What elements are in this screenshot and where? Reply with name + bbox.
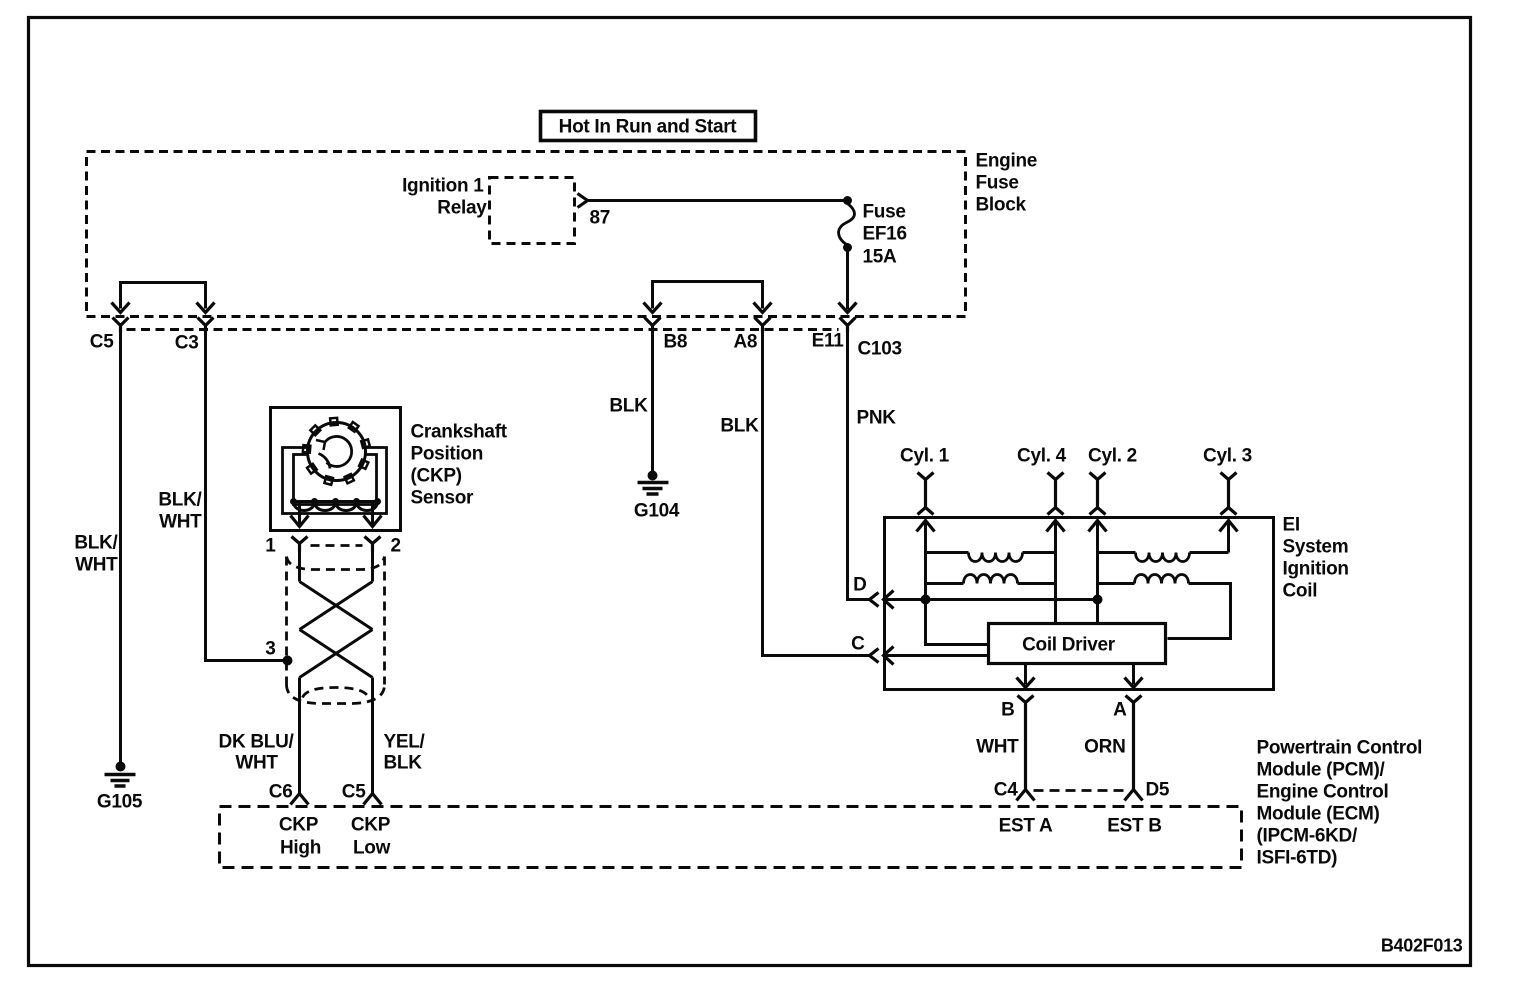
svg-text:Cyl. 4: Cyl. 4: [1017, 446, 1067, 467]
svg-text:BLK/: BLK/: [74, 533, 118, 554]
svg-text:WHT: WHT: [75, 555, 118, 576]
svg-text:WHT: WHT: [235, 753, 278, 774]
junction dot right: [1093, 595, 1103, 605]
bridge wire B8-A8: [653, 282, 763, 309]
junction dot at fuse bottom: [843, 243, 852, 252]
svg-text:Coil: Coil: [1283, 581, 1318, 602]
wire into coil box at x=925: [924, 521, 927, 600]
svg-text:EI: EI: [1283, 515, 1300, 536]
svg-text:Low: Low: [353, 838, 391, 859]
CKP coil: [291, 500, 379, 503]
pin 87 of relay: [578, 194, 588, 208]
output wire B: [1024, 664, 1027, 685]
spark plug connector at x=925: [918, 473, 934, 515]
ground G105: [116, 762, 126, 772]
svg-text:DK BLU/: DK BLU/: [219, 732, 295, 753]
wire D into box: [884, 598, 1098, 601]
connector B (female): [1018, 696, 1034, 790]
svg-text:Ignition 1: Ignition 1: [402, 176, 484, 197]
wire C3 BLK/WHT to shield pin 3: [206, 333, 287, 661]
svg-text:EST A: EST A: [999, 816, 1053, 837]
connector A8 (female): [755, 318, 771, 333]
engine fuse block box (dashed): [87, 152, 966, 317]
wire into coil box at x=1097: [1096, 521, 1099, 624]
twisted pair shield (dashed cylinder): [311, 544, 363, 547]
svg-text:Cyl. 1: Cyl. 1: [900, 446, 950, 467]
connector A (female): [1126, 696, 1142, 790]
svg-text:Module (ECM): Module (ECM): [1257, 804, 1380, 825]
svg-text:G105: G105: [97, 792, 143, 813]
svg-text:Block: Block: [976, 195, 1027, 216]
ground G104: [648, 471, 658, 481]
svg-text:CKP: CKP: [279, 815, 319, 836]
svg-text:YEL/: YEL/: [384, 732, 426, 753]
CKP sensor box: [271, 408, 401, 531]
svg-text:BLK: BLK: [384, 753, 423, 774]
wire PNK E11 to D: [848, 333, 870, 600]
title box Hot In Run and Start: [541, 112, 756, 141]
connector C103 dashed line: [127, 328, 839, 331]
svg-text:WHT: WHT: [159, 512, 202, 533]
wire C5 BLK/WHT to G105: [119, 333, 122, 765]
dashed connector line C4-D5: [1034, 789, 1126, 792]
svg-text:CKP: CKP: [351, 815, 391, 836]
svg-text:A: A: [1113, 700, 1127, 721]
connector C3 (female): [198, 318, 214, 333]
pin D5 (male): [1125, 790, 1143, 801]
svg-text:Crankshaft: Crankshaft: [411, 422, 508, 443]
svg-text:WHT: WHT: [976, 737, 1019, 758]
svg-text:Coil Driver: Coil Driver: [1022, 635, 1116, 656]
svg-text:C: C: [851, 634, 865, 655]
svg-text:Relay: Relay: [437, 198, 487, 219]
spark plug connector at x=1097: [1090, 473, 1106, 515]
svg-text:Ignition: Ignition: [1283, 559, 1349, 580]
svg-text:B402F013: B402F013: [1381, 936, 1463, 956]
svg-text:Position: Position: [411, 444, 484, 465]
bridge wire C5-C3: [121, 283, 206, 309]
spark plug connector at x=1055: [1048, 473, 1064, 515]
wire into coil box at x=1055: [1054, 521, 1057, 624]
arrow into C5: [112, 303, 130, 313]
svg-text:System: System: [1283, 537, 1349, 558]
connector C5 (female): [113, 318, 129, 333]
svg-text:Fuse: Fuse: [863, 202, 906, 223]
rotation arrow inside wheel: [325, 436, 352, 466]
svg-text:15A: 15A: [863, 247, 898, 268]
svg-text:EF16: EF16: [863, 224, 907, 245]
svg-text:Hot In Run and Start: Hot In Run and Start: [559, 117, 738, 138]
svg-text:PNK: PNK: [857, 408, 897, 429]
pin C5 pcm (male): [364, 794, 382, 805]
svg-text:C103: C103: [858, 339, 902, 360]
PCM box (dashed): [220, 807, 1242, 868]
svg-text:G104: G104: [634, 501, 680, 522]
svg-text:1: 1: [265, 536, 276, 557]
svg-text:3: 3: [265, 639, 275, 660]
arrow into B8: [644, 303, 662, 313]
svg-text:EST B: EST B: [1107, 816, 1161, 837]
svg-text:ORN: ORN: [1084, 737, 1125, 758]
fuse EF16 15A: [839, 204, 855, 245]
svg-text:C3: C3: [175, 333, 199, 354]
arrow into C3: [197, 303, 215, 313]
svg-text:2: 2: [391, 536, 401, 557]
relay box Ignition 1 Relay (dashed): [490, 178, 575, 244]
pin C4 (male): [1017, 790, 1035, 801]
svg-text:(CKP): (CKP): [411, 466, 462, 487]
svg-text:B8: B8: [664, 332, 688, 353]
arrow into connector E11: [839, 303, 857, 313]
svg-text:High: High: [280, 838, 321, 859]
svg-text:Cyl. 3: Cyl. 3: [1203, 446, 1252, 467]
primary winding left: [926, 582, 964, 585]
output wire A: [1132, 664, 1135, 685]
svg-text:A8: A8: [734, 332, 758, 353]
svg-text:87: 87: [590, 208, 611, 229]
EI coil box: [885, 518, 1274, 690]
CKP pickup outer rect: [283, 448, 387, 514]
svg-text:Sensor: Sensor: [411, 488, 475, 509]
secondary winding cyl 1-4: [926, 551, 969, 554]
pin C6 (male): [291, 794, 309, 805]
pin 1 (female): [292, 537, 308, 552]
CKP output wires with arrows: [300, 502, 373, 525]
wire B8 BLK to G104: [651, 333, 654, 474]
svg-text:Engine: Engine: [976, 151, 1038, 172]
svg-text:(IPCM-6KD/: (IPCM-6KD/: [1257, 826, 1358, 847]
svg-text:BLK: BLK: [609, 396, 648, 417]
junction dot at fuse top: [843, 196, 852, 205]
connector C (female): [870, 649, 879, 663]
wire dot to coil driver: [926, 600, 989, 645]
svg-text:D5: D5: [1146, 780, 1170, 801]
connector E11 (female): [840, 318, 856, 333]
svg-text:BLK/: BLK/: [158, 490, 202, 511]
wire A8 BLK to C: [763, 333, 870, 656]
svg-text:C4: C4: [994, 780, 1018, 801]
svg-text:C5: C5: [90, 332, 114, 353]
svg-text:B: B: [1001, 700, 1014, 721]
spark plug connector at x=1228: [1221, 473, 1237, 515]
secondary winding cyl 2-3: [1098, 551, 1136, 554]
svg-text:Engine Control: Engine Control: [1257, 782, 1389, 803]
junction dot pin 3: [283, 656, 293, 666]
coil driver box: [989, 624, 1166, 664]
svg-text:E11: E11: [812, 331, 845, 352]
wire C into coil driver: [884, 654, 989, 657]
svg-text:Fuse: Fuse: [976, 173, 1019, 194]
svg-text:C6: C6: [269, 782, 293, 803]
wire 87 to fuse: [588, 199, 847, 202]
wire fuse to E11: [846, 248, 849, 310]
CKP pickup inner rect: [294, 455, 377, 505]
svg-text:C5: C5: [342, 782, 366, 803]
arrow into A8: [754, 303, 772, 313]
svg-text:Cyl. 2: Cyl. 2: [1088, 446, 1137, 467]
svg-text:Module (PCM)/: Module (PCM)/: [1257, 760, 1386, 781]
connector B8 (female): [645, 318, 661, 333]
connector D (female): [870, 593, 879, 607]
wire into coil box at x=1228: [1227, 521, 1230, 553]
twisted pair wires: [300, 552, 373, 582]
svg-text:ISFI-6TD): ISFI-6TD): [1257, 848, 1338, 869]
svg-text:Powertrain Control: Powertrain Control: [1257, 738, 1423, 759]
pin 2 (female): [365, 537, 381, 552]
primary winding right: [1098, 582, 1135, 585]
junction dot left: [921, 595, 931, 605]
CKP reluctor wheel: [308, 423, 366, 481]
svg-text:D: D: [853, 575, 866, 596]
svg-text:BLK: BLK: [720, 416, 759, 437]
